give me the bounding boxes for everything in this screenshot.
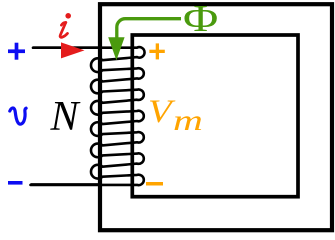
polarity - (orange) (146, 182, 163, 186)
label Vm (mmf voltage, orange) (148, 96, 172, 129)
terminal - (blue) (8, 181, 23, 185)
polarity + (orange) (149, 43, 164, 59)
label N (turns, black) (51, 96, 79, 138)
label i (current, red) (60, 22, 67, 37)
wire: top lead from + terminal (33, 46, 99, 49)
dot of i (65, 13, 71, 19)
label v (voltage, blue) (10, 108, 26, 124)
inner core window rectangle (132, 35, 298, 197)
wire: bottom lead to - terminal (31, 183, 100, 186)
outer core rectangle (100, 4, 332, 230)
label Phi (flux, green) (183, 0, 218, 38)
flux arrowhead (green) (108, 37, 124, 60)
coil N (winding with lead wires) (31, 47, 145, 185)
flux arrow elbow (green) (117, 19, 181, 39)
current arrowhead (red) (61, 42, 85, 58)
terminal + (blue) (8, 43, 25, 60)
